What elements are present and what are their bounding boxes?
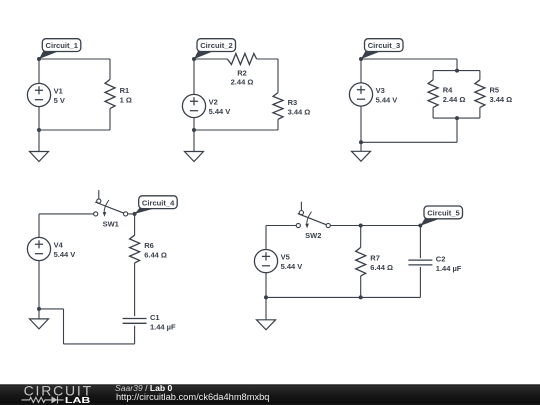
voltage source V5: [254, 250, 277, 273]
wire: [134, 326, 136, 344]
voltage source V2: [182, 94, 205, 117]
wire: [38, 107, 40, 130]
junction node 3 top: [359, 57, 363, 61]
svg-text:http://circuitlab.com/ck6da4hm: http://circuitlab.com/ck6da4hm8mxbq: [116, 392, 269, 402]
node label Circuit_5: [420, 206, 462, 226]
svg-text:R1: R1: [120, 86, 130, 95]
resistor R7: [356, 247, 366, 276]
resistor R5: [475, 80, 485, 108]
wire: [277, 59, 279, 93]
svg-text:R5: R5: [490, 86, 500, 95]
svg-text:SW2: SW2: [305, 231, 321, 240]
junction node 4 label tip: [133, 212, 137, 216]
wire: [360, 226, 362, 248]
svg-text:V2: V2: [209, 98, 218, 107]
wire: [128, 213, 135, 215]
wire: [361, 58, 457, 60]
svg-text:R2: R2: [237, 68, 247, 77]
switch SW1: [94, 190, 128, 217]
junction node 3 par-top: [455, 69, 459, 73]
svg-text:2.44 Ω: 2.44 Ω: [231, 78, 254, 87]
wire: [194, 129, 278, 131]
ground: [30, 130, 49, 162]
svg-text:C1: C1: [150, 313, 160, 322]
ground: [185, 130, 204, 162]
wire: [64, 343, 135, 345]
svg-text:SW1: SW1: [103, 220, 119, 229]
svg-text:3.44 Ω: 3.44 Ω: [288, 107, 311, 116]
capacitor C1: [123, 319, 147, 324]
voltage source V3: [349, 83, 372, 106]
svg-text:Circuit_3: Circuit_3: [368, 41, 401, 50]
svg-text:5.44 V: 5.44 V: [376, 96, 398, 105]
wire: [193, 118, 195, 130]
ground: [352, 142, 371, 161]
junction node 1 bottom: [37, 128, 41, 132]
wire: [432, 107, 434, 118]
svg-text:R4: R4: [443, 86, 453, 95]
svg-text:V1: V1: [54, 87, 63, 96]
wire: [194, 58, 227, 60]
wire: [39, 213, 94, 215]
capacitor C2: [408, 260, 432, 265]
resistor R4: [428, 80, 438, 108]
svg-text:V5: V5: [281, 253, 290, 262]
junction node 1 top: [37, 57, 41, 61]
wire: [109, 59, 111, 79]
wire: [38, 59, 40, 83]
junction node 5 left-bottom: [264, 295, 268, 299]
svg-text:6.44 Ω: 6.44 Ω: [370, 263, 393, 272]
svg-text:Circuit_4: Circuit_4: [142, 198, 175, 207]
ground: [257, 297, 276, 329]
wire: [39, 58, 110, 60]
wire: [479, 107, 481, 118]
svg-text:R7: R7: [370, 254, 380, 263]
wire: [432, 71, 434, 80]
svg-text:Circuit_5: Circuit_5: [427, 209, 460, 218]
wire: [330, 225, 420, 227]
svg-text:2.44 Ω: 2.44 Ω: [443, 95, 466, 104]
footer bar: [0, 384, 540, 405]
svg-text:Circuit_2: Circuit_2: [200, 41, 233, 50]
svg-text:1.44 µF: 1.44 µF: [436, 264, 462, 273]
junction node 2 top: [192, 57, 196, 61]
wire: [63, 309, 65, 344]
wire: [109, 109, 111, 130]
wire: [39, 308, 64, 310]
wire: [360, 276, 362, 298]
svg-text:5.44 V: 5.44 V: [209, 107, 231, 116]
wire: [39, 129, 110, 131]
junction node 2 bottom: [192, 128, 196, 132]
wire: [134, 214, 136, 235]
wire: [360, 106, 362, 142]
wire: [134, 263, 136, 316]
wire: [433, 70, 480, 72]
svg-text:R3: R3: [288, 98, 298, 107]
junction node 3 bottom: [359, 140, 363, 144]
wire: [38, 214, 40, 237]
svg-text:V4: V4: [54, 241, 64, 250]
svg-text:Circuit_1: Circuit_1: [46, 41, 79, 50]
wire: [277, 119, 279, 130]
wire: [456, 118, 458, 142]
svg-text:R6: R6: [144, 241, 154, 250]
svg-text:V3: V3: [376, 86, 385, 95]
switch SW2: [296, 202, 330, 229]
svg-text:1.44 µF: 1.44 µF: [150, 322, 176, 331]
wire: [193, 59, 195, 94]
node label Circuit_3: [361, 39, 403, 59]
junction node 5 mid-top: [359, 224, 363, 228]
wire: [257, 58, 278, 60]
ground: [30, 309, 49, 329]
svg-text:5 V: 5 V: [54, 96, 65, 105]
wire: [433, 117, 480, 119]
junction node 5 corner: [418, 224, 422, 228]
resistor R2: [227, 54, 256, 65]
resistor R1: [105, 79, 115, 108]
wire: [265, 273, 267, 298]
svg-text:6.44 Ω: 6.44 Ω: [144, 251, 167, 260]
svg-text:C2: C2: [436, 254, 446, 263]
wire: [456, 59, 458, 71]
svg-text:1 Ω: 1 Ω: [120, 96, 132, 105]
node label Circuit_1: [39, 39, 81, 59]
junction node 5 mid-bottom: [359, 295, 363, 299]
resistor R6: [130, 235, 140, 263]
wire: [265, 226, 267, 250]
voltage source V4: [27, 237, 50, 260]
wire: [419, 226, 421, 259]
svg-text:LAB: LAB: [65, 395, 91, 405]
wire: [266, 225, 296, 227]
junction node 3 par-bottom: [455, 116, 459, 120]
resistor R3: [273, 93, 283, 120]
svg-text:5.44 V: 5.44 V: [54, 250, 76, 259]
node label Circuit_4: [135, 196, 178, 214]
wire: [419, 267, 421, 297]
voltage source V1: [27, 83, 50, 106]
node label Circuit_2: [194, 39, 236, 59]
svg-text:3.44 Ω: 3.44 Ω: [490, 95, 513, 104]
svg-text:5.44 V: 5.44 V: [281, 262, 303, 271]
wire: [360, 59, 362, 83]
wire: [479, 71, 481, 80]
logo resistor-diode glyph: [22, 396, 64, 403]
wire: [38, 261, 40, 309]
wire: [361, 141, 457, 143]
junction node 4 ground: [37, 307, 41, 311]
wire: [266, 296, 420, 298]
